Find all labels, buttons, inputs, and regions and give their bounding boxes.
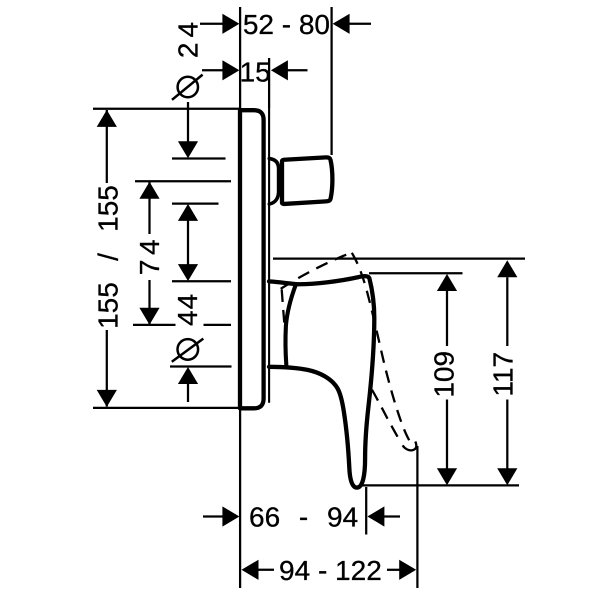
- lever handle outline: [269, 276, 374, 487]
- wire 66-94 right extension line: [365, 487, 367, 535]
- svg-text:44: 44: [172, 293, 203, 326]
- wire 94-122 right extension line: [416, 446, 418, 588]
- dashed raised-lever bottom edge: [372, 390, 401, 443]
- arrow d44 down: [178, 264, 198, 281]
- arrow 66-94 left: [222, 506, 239, 526]
- dashed raised-lever tip: [403, 442, 417, 451]
- wire dim 109 line lower: [446, 400, 448, 469]
- lever handle back edge: [285, 285, 295, 365]
- arrow 74 top: [139, 182, 159, 199]
- wire hub bottom extension line: [170, 365, 232, 367]
- svg-text:109: 109: [429, 351, 460, 398]
- wire plate bottom extension line: [93, 407, 238, 409]
- wire handle tip extension line: [363, 484, 520, 486]
- arrow 117 bottom: [497, 468, 517, 485]
- arrow 52-80 left: [222, 14, 239, 34]
- wire dim 155/155 line upper: [106, 110, 108, 183]
- wire dim 94-122 line right: [387, 569, 400, 571]
- wire plate top extension line: [93, 108, 240, 110]
- arrow 155 bottom: [97, 390, 117, 407]
- wire knob-end extension line: [330, 7, 332, 155]
- wire dim 52-80 right tail: [349, 23, 372, 25]
- arrow 109 top: [437, 274, 457, 291]
- dashed raised-lever back edge upper: [282, 290, 285, 328]
- dashed raised-lever top edge: [281, 253, 352, 289]
- diverter knob neck: [269, 159, 278, 204]
- wire 117 top extension line: [273, 257, 525, 259]
- wire hub-center extension line left: [133, 324, 176, 326]
- wire dim 74 line upper: [148, 182, 150, 234]
- arrow 94-122 right: [399, 560, 416, 580]
- svg-text:52 - 80: 52 - 80: [243, 9, 330, 40]
- wire dim 155/155 line lower: [106, 330, 108, 407]
- wire dim 117 line upper: [506, 277, 508, 346]
- wire knob bottom extension line: [172, 202, 219, 204]
- wire dim 109 line upper: [446, 291, 448, 346]
- plate far-edge line: [268, 108, 270, 402]
- wire dim 15 right tail: [287, 69, 308, 71]
- arrow 52-80 right: [333, 14, 350, 34]
- arrow d44 up: [178, 367, 198, 384]
- diameter symbol d44: [178, 339, 199, 360]
- wire dim 74 line lower: [148, 280, 150, 325]
- wire knob-center extension line: [135, 180, 231, 182]
- escutcheon plate outline: [240, 110, 264, 408]
- wire knob top extension line: [172, 157, 226, 159]
- arrow 117 top: [497, 260, 517, 277]
- arrow 15 right: [271, 60, 288, 80]
- arrow 74 bottom: [139, 308, 159, 325]
- svg-text:74: 74: [134, 235, 165, 275]
- wire 109 top extension line: [369, 272, 463, 274]
- wire dim d44 lower tail: [187, 384, 189, 402]
- wire dim 117 line lower: [506, 400, 508, 469]
- wire dim 15 left tail: [202, 69, 224, 71]
- wire hub top extension line: [172, 280, 231, 282]
- svg-text:66 - 94: 66 - 94: [249, 502, 358, 533]
- wire sleeve-face extension line: [268, 58, 270, 108]
- wire dim 66-94 left tail: [203, 515, 224, 517]
- arrow 109 bottom: [437, 468, 457, 485]
- arrow d24 down: [178, 141, 198, 158]
- wire dim d24 upper tail: [187, 102, 189, 142]
- dashed raised-lever front edge: [352, 253, 409, 440]
- wire wall surface line: [239, 7, 241, 588]
- diverter knob body: [282, 157, 332, 204]
- wire dim 66-94 right tail: [384, 515, 401, 517]
- diameter symbol d24: [178, 77, 198, 97]
- arrow 155 top: [97, 110, 117, 127]
- arrow 66-94 right: [367, 506, 384, 526]
- svg-text:15: 15: [240, 56, 271, 87]
- arrow 94-122 left: [242, 560, 259, 580]
- wire dim 94-122 line: [258, 569, 275, 571]
- svg-text:155 / 155: 155 / 155: [93, 185, 124, 329]
- arrow d24 up: [178, 204, 198, 221]
- svg-text:117: 117: [488, 352, 519, 397]
- wire hub-center extension line right: [204, 324, 232, 326]
- svg-text:94 - 122: 94 - 122: [279, 555, 382, 586]
- wire dim 52-80 left tail: [200, 23, 224, 25]
- svg-text:24: 24: [173, 17, 204, 58]
- wire dim d24 lower tail / d44 upper tail: [187, 221, 189, 265]
- arrow 15 left: [222, 60, 239, 80]
